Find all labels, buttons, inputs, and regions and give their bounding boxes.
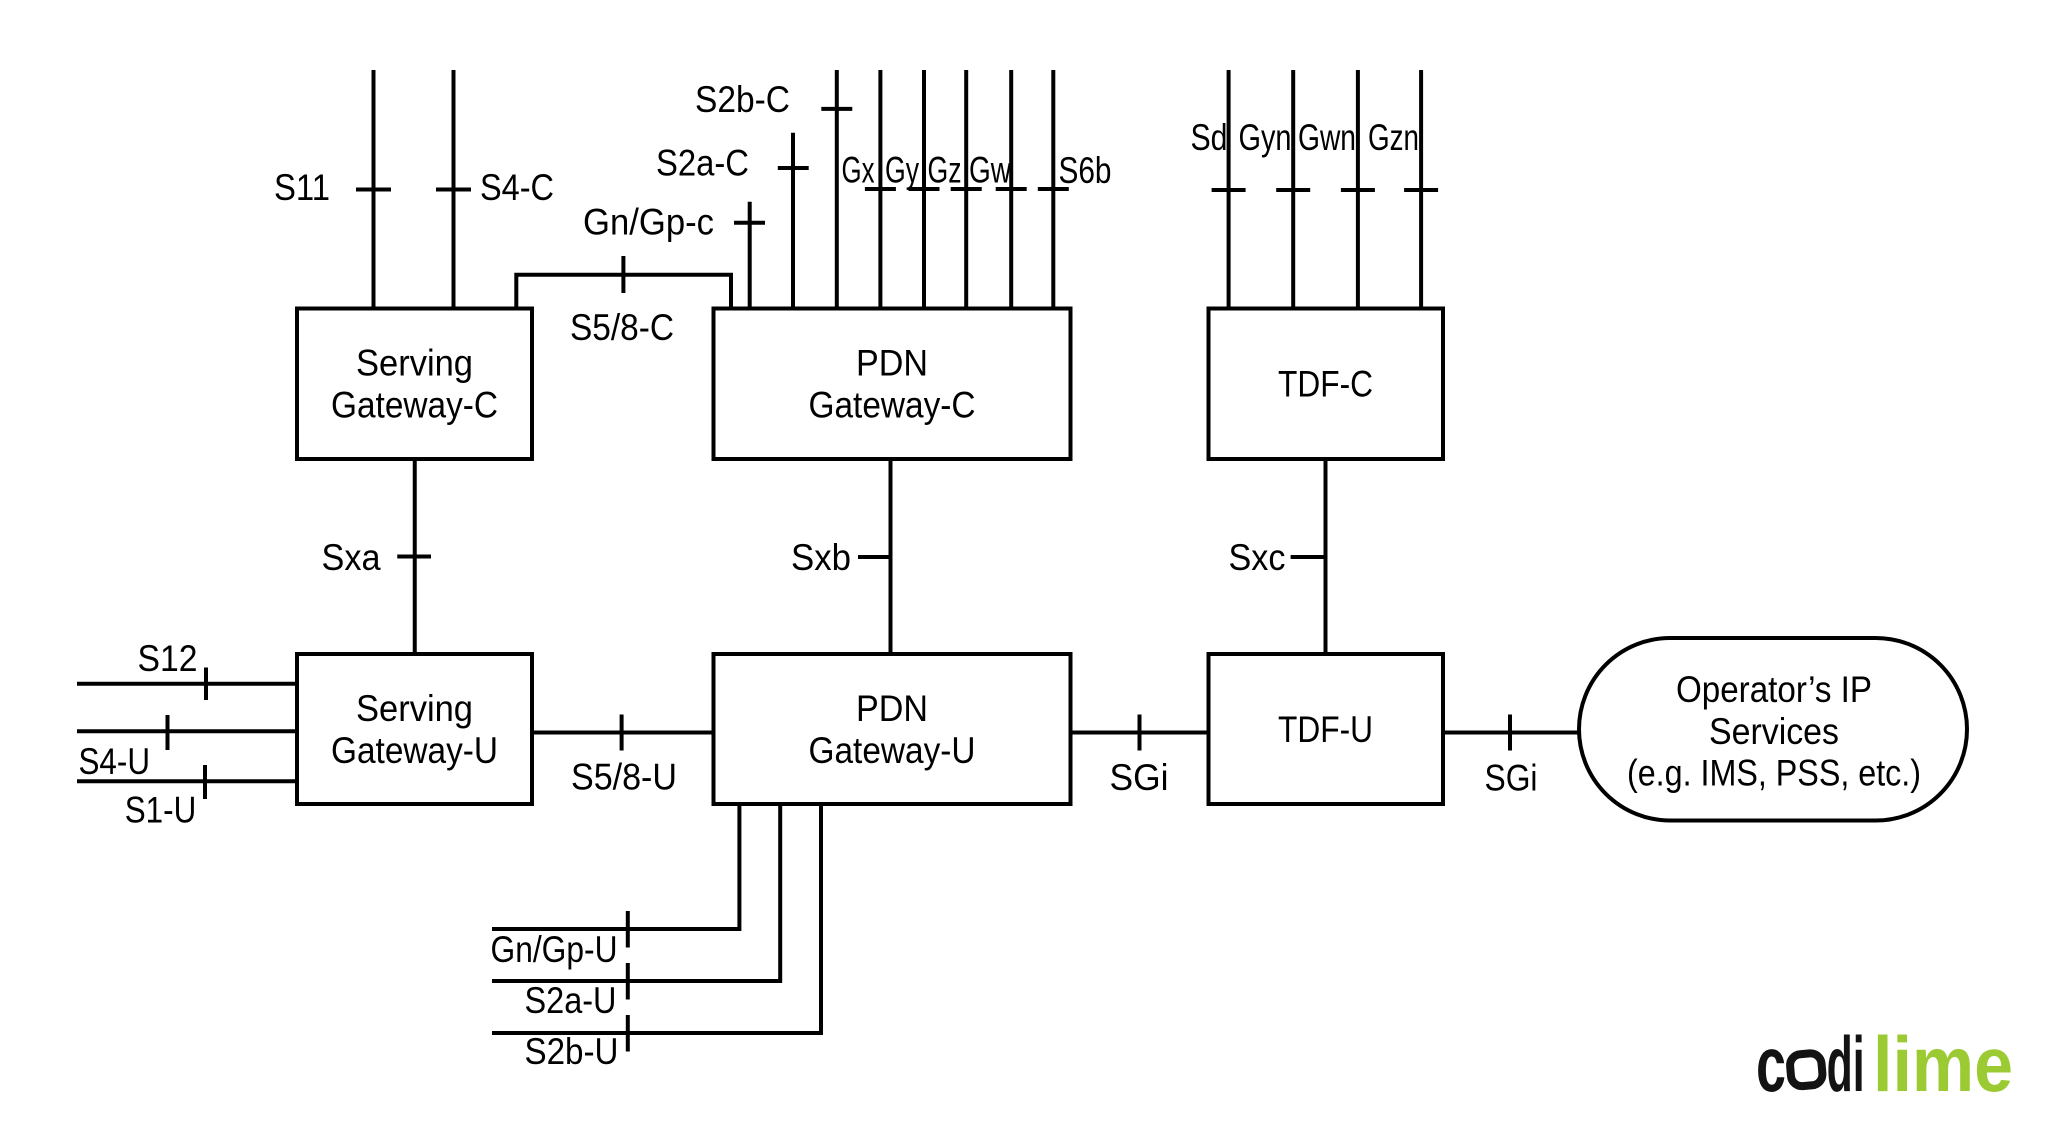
svg-text:Gn/Gp-U: Gn/Gp-U bbox=[491, 929, 618, 970]
svg-text:S4-U: S4-U bbox=[79, 741, 151, 782]
svg-text:Sxa: Sxa bbox=[322, 537, 381, 578]
svg-text:S4-C: S4-C bbox=[480, 167, 554, 208]
svg-text:Gx: Gx bbox=[842, 150, 875, 191]
svg-text:Gateway-C: Gateway-C bbox=[331, 385, 498, 426]
svg-text:S2b-C: S2b-C bbox=[695, 79, 790, 120]
svg-text:TDF-C: TDF-C bbox=[1278, 364, 1373, 405]
svg-text:S2a-C: S2a-C bbox=[656, 143, 749, 184]
svg-text:Gz: Gz bbox=[928, 150, 962, 191]
svg-text:(e.g. IMS, PSS, etc.): (e.g. IMS, PSS, etc.) bbox=[1627, 753, 1921, 794]
svg-text:Gwn: Gwn bbox=[1298, 117, 1356, 158]
svg-text:S5/8-C: S5/8-C bbox=[570, 307, 674, 348]
svg-text:SGi: SGi bbox=[1485, 758, 1538, 799]
svg-text:Serving: Serving bbox=[356, 343, 473, 384]
svg-text:PDN: PDN bbox=[856, 343, 928, 384]
svg-text:Gateway-U: Gateway-U bbox=[809, 730, 976, 771]
svg-text:Gn/Gp-c: Gn/Gp-c bbox=[583, 202, 714, 243]
svg-text:S2b-U: S2b-U bbox=[525, 1031, 619, 1072]
svg-text:SGi: SGi bbox=[1110, 757, 1169, 798]
svg-text:Gateway-C: Gateway-C bbox=[809, 385, 976, 426]
svg-text:Sd: Sd bbox=[1191, 117, 1228, 158]
svg-text:S1-U: S1-U bbox=[125, 790, 197, 831]
svg-text:TDF-U: TDF-U bbox=[1278, 709, 1373, 750]
svg-text:Operator’s IP: Operator’s IP bbox=[1676, 669, 1872, 710]
svg-text:PDN: PDN bbox=[856, 688, 928, 729]
svg-text:Gw: Gw bbox=[969, 150, 1011, 191]
svg-text:S2a-U: S2a-U bbox=[525, 980, 617, 1021]
svg-text:di: di bbox=[1827, 1020, 1865, 1108]
svg-text:lime: lime bbox=[1873, 1020, 2013, 1108]
svg-text:S5/8-U: S5/8-U bbox=[571, 757, 677, 798]
svg-text:Sxc: Sxc bbox=[1229, 537, 1286, 578]
svg-text:Services: Services bbox=[1709, 711, 1839, 752]
svg-text:c: c bbox=[1756, 1020, 1786, 1108]
svg-text:Gyn: Gyn bbox=[1239, 117, 1292, 158]
svg-text:Sxb: Sxb bbox=[791, 537, 851, 578]
svg-text:Gy: Gy bbox=[885, 150, 919, 191]
svg-text:S12: S12 bbox=[138, 638, 198, 679]
svg-text:Gateway-U: Gateway-U bbox=[331, 730, 498, 771]
svg-text:S6b: S6b bbox=[1059, 150, 1112, 191]
svg-text:Gzn: Gzn bbox=[1368, 117, 1419, 158]
svg-text:S11: S11 bbox=[274, 167, 330, 208]
svg-text:Serving: Serving bbox=[356, 688, 473, 729]
